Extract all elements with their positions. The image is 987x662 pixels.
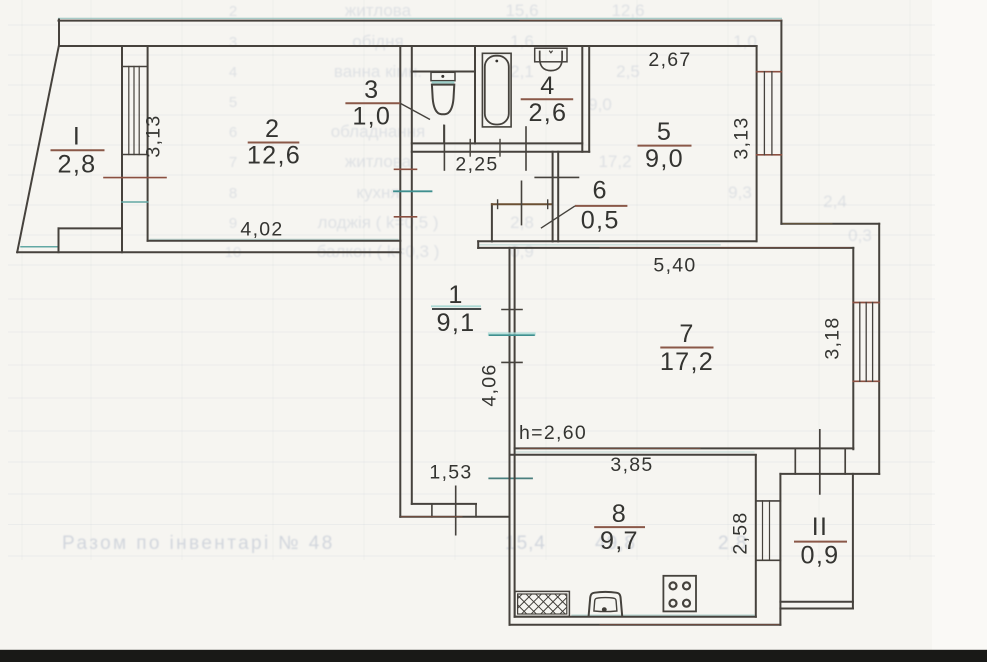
room2 door teal dim line — [394, 190, 432, 192]
balcony window cap top — [122, 66, 148, 68]
svg-text:2: 2 — [265, 115, 280, 143]
svg-text:17,2: 17,2 — [660, 348, 714, 376]
corridor left wall outer line — [399, 46, 401, 517]
room2 door red tick upper — [395, 168, 417, 170]
svg-text:кухня: кухня — [356, 183, 399, 202]
kitchen top wall lower line — [510, 454, 756, 456]
svg-text:3,13: 3,13 — [143, 114, 165, 157]
room 2 underline — [248, 142, 300, 144]
svg-text:9,3: 9,3 — [728, 183, 752, 202]
dim teal line at entrance — [489, 477, 532, 479]
svg-text:9,1: 9,1 — [437, 309, 476, 337]
svg-text:7: 7 — [679, 320, 694, 348]
room7 right wall inner — [852, 248, 854, 449]
toilet cistern — [431, 72, 455, 80]
balcony II bottom line1 — [780, 601, 853, 603]
kitchen bottom wall outer — [510, 624, 781, 626]
red-brown tint on room7 bottom line — [520, 448, 700, 450]
stove burner 1 — [670, 582, 677, 589]
svg-text:2,5: 2,5 — [616, 62, 640, 81]
svg-text:I: I — [73, 123, 81, 151]
closet 6 top edge — [492, 203, 553, 205]
bathtub outer rect — [482, 53, 511, 127]
red-brown tint on entrance outer line — [401, 516, 462, 518]
corridor right wall line1 — [509, 248, 511, 625]
svg-text:2,25: 2,25 — [455, 154, 498, 176]
closet 6 left edge — [491, 204, 493, 241]
balcony I / room2 bottom outer line — [17, 251, 400, 253]
room II underline — [794, 541, 847, 543]
svg-text:h=2,60: h=2,60 — [519, 422, 587, 444]
svg-text:0,9: 0,9 — [801, 542, 840, 570]
svg-text:4: 4 — [229, 64, 237, 81]
outer top wall top edge — [59, 20, 782, 22]
washbasin outer rect — [535, 48, 567, 62]
kitchen right wall outer — [779, 474, 781, 625]
svg-text:9,0: 9,0 — [588, 95, 612, 114]
svg-text:7: 7 — [229, 154, 237, 171]
faint table grid rows top — [8, 25, 935, 265]
stove burner 2 — [683, 582, 690, 589]
room 8 underline — [594, 526, 645, 528]
room7 bottom wall line — [515, 447, 854, 449]
svg-text:9: 9 — [229, 215, 237, 232]
kitchen sink outer — [589, 592, 623, 616]
balcony II right edge — [852, 474, 854, 609]
dim tick 2,25 right — [525, 127, 527, 170]
room I underline — [51, 149, 105, 151]
junction tick 2 on bath wall — [499, 140, 501, 157]
room 6 underline — [575, 205, 627, 207]
room 5 underline — [638, 145, 692, 147]
entrance step inner line — [412, 503, 476, 505]
outer right wall upper — [780, 21, 782, 224]
red-brown tint on hall band lower line — [600, 247, 850, 249]
balcony window glazing — [129, 67, 139, 155]
dim tick 2,25 left — [443, 126, 445, 171]
room 1 underline — [432, 308, 481, 310]
room 6 leader line — [541, 206, 575, 228]
teal dim line halo corridor-room7 — [490, 332, 535, 335]
room5 window cap bottom — [757, 154, 782, 156]
outer top wall left cap — [58, 20, 60, 47]
closet 6 plus tick right — [547, 200, 549, 209]
entrance step outer line — [400, 516, 509, 518]
bathroom right wall line 2 — [588, 46, 590, 152]
svg-text:2,67: 2,67 — [648, 49, 691, 71]
svg-text:4,02: 4,02 — [240, 219, 283, 241]
corridor left wall inner line — [411, 46, 413, 504]
svg-text:3: 3 — [229, 34, 237, 51]
room 3 leader line — [400, 103, 430, 119]
toilet room right wall — [474, 46, 476, 144]
kitchen counter inner hatched — [518, 594, 567, 614]
red-brown tint on top wall line — [520, 19, 781, 21]
svg-text:3: 3 — [364, 76, 379, 104]
toilet cistern dot — [441, 75, 444, 78]
balcony I step horizontal — [59, 227, 122, 229]
bathroom right wall line 1 — [581, 46, 583, 152]
outer top wall teal edge — [59, 17, 782, 19]
bathroom bottom wall upper line — [412, 142, 583, 144]
balcony II door jamb left — [794, 449, 796, 474]
red-brown tint on kitchen bottom outer line — [600, 624, 779, 626]
kitchen sink inner — [594, 598, 617, 612]
balcony I step vertical — [58, 228, 60, 252]
faint table grid rows bottom — [8, 431, 935, 556]
balcony II top line — [780, 473, 879, 475]
svg-text:15,4: 15,4 — [505, 533, 546, 554]
dim tick 1,53 vertical — [455, 486, 457, 534]
svg-text:1,53: 1,53 — [429, 462, 472, 484]
balcony wall teal sill mark — [122, 201, 148, 203]
closet 6 plus tick left — [497, 200, 499, 209]
stove burner 3 — [670, 600, 677, 607]
kitchen window cap top — [756, 500, 781, 502]
svg-text:2,6: 2,6 — [528, 99, 567, 127]
svg-text:8: 8 — [229, 185, 237, 202]
svg-text:II: II — [812, 513, 829, 541]
kitchen top wall teal tint — [516, 451, 754, 453]
outer wall step horizontal — [781, 223, 879, 225]
room 2 bottom wall teal tint — [150, 238, 398, 240]
svg-text:1,0: 1,0 — [733, 32, 757, 51]
kitchen floor teal line — [572, 614, 754, 616]
closet 6 right wall line2 — [557, 152, 559, 242]
balcony II bottom line2 — [780, 608, 853, 610]
teal dim line corridor-room7 — [490, 334, 535, 336]
entrance jamb tick 2 — [475, 504, 477, 517]
room7 window cap bottom — [853, 380, 879, 382]
bathtub dot — [495, 60, 498, 63]
balcony I / room 2 wall left line — [121, 46, 123, 252]
svg-text:17,2: 17,2 — [598, 152, 631, 171]
room5 window cap top — [757, 71, 782, 73]
svg-text:6: 6 — [229, 124, 237, 141]
washbasin notch — [549, 51, 552, 53]
kitchen sink bottom notch — [602, 607, 607, 612]
svg-text:3,85: 3,85 — [610, 454, 653, 476]
bathroom bottom wall lower line — [412, 151, 589, 153]
svg-text:2,58: 2,58 — [730, 511, 752, 554]
kitchen right wall inner — [755, 455, 757, 617]
svg-text:житлова: житлова — [345, 1, 412, 20]
room 7 underline — [660, 347, 713, 349]
closet 6 right wall line1 — [552, 152, 554, 242]
svg-text:6: 6 — [593, 177, 608, 205]
kitchen window glazing — [763, 501, 770, 560]
room7 window cap top — [853, 302, 879, 304]
room5 window glazing — [764, 72, 772, 155]
balcony I floor teal line — [21, 246, 59, 248]
toilet shelf line — [412, 71, 475, 73]
faint table columns top — [22, 0, 910, 560]
svg-text:0,3: 0,3 — [848, 226, 872, 245]
svg-text:Разом по інвентарі № 48: Разом по інвентарі № 48 — [62, 533, 335, 554]
room 3 underline — [345, 102, 400, 104]
svg-text:5: 5 — [657, 118, 672, 146]
corridor right wall line2 — [514, 248, 516, 617]
svg-text:4,06: 4,06 — [479, 363, 501, 406]
svg-text:0,5: 0,5 — [581, 206, 620, 234]
svg-text:1,6: 1,6 — [510, 32, 534, 51]
hall band teal fill — [480, 244, 720, 246]
tick crossing closet right wall — [535, 176, 578, 178]
junction tick on bath wall — [469, 140, 471, 157]
hall band lower line — [478, 247, 853, 249]
svg-text:9,0: 9,0 — [645, 145, 684, 173]
outer right wall lower — [878, 224, 880, 474]
brown tint on outer step line — [783, 223, 832, 225]
door ticks corridor-room7 — [502, 310, 522, 363]
svg-text:1: 1 — [448, 281, 463, 309]
balcony door red tick — [104, 177, 166, 179]
room2 door red tick lower — [395, 216, 417, 218]
black scan bar at bottom — [0, 650, 987, 662]
svg-text:15,6: 15,6 — [505, 1, 538, 20]
svg-text:5: 5 — [229, 94, 237, 111]
svg-text:12,6: 12,6 — [247, 141, 301, 169]
hall band left cap — [477, 241, 479, 248]
svg-text:1,0: 1,0 — [352, 103, 391, 131]
svg-text:лоджія ( k=0,5 ): лоджія ( k=0,5 ) — [317, 213, 438, 232]
toilet bowl — [432, 85, 454, 115]
kitchen counter outer — [515, 591, 570, 616]
svg-text:3,18: 3,18 — [822, 316, 844, 359]
svg-text:5,40: 5,40 — [653, 255, 696, 277]
balcony window cap bottom — [122, 154, 148, 156]
stove rect — [663, 576, 696, 612]
toilet seal teal band — [432, 81, 455, 83]
hall band upper line — [478, 240, 756, 242]
svg-text:житлова: житлова — [345, 152, 412, 171]
bleed totals row — [62, 533, 747, 554]
svg-text:2,1: 2,1 — [510, 62, 534, 81]
faint bleed text rows — [225, 1, 872, 261]
outer top wall bottom edge — [59, 45, 757, 47]
svg-text:обідня: обідня — [352, 32, 403, 51]
kitchen bottom wall inner — [515, 616, 756, 618]
svg-text:3,13: 3,13 — [731, 116, 753, 159]
svg-text:2: 2 — [229, 3, 237, 20]
faint table grid rows middle — [8, 299, 935, 398]
room5 right wall inner line — [756, 46, 758, 241]
room7 window glazing — [860, 303, 873, 382]
bleed-through table layer placeholder — [8, 0, 935, 560]
svg-text:12,6: 12,6 — [611, 1, 644, 20]
room 4 underline — [521, 98, 574, 100]
balcony II door jamb right — [844, 449, 846, 474]
toilet leader tick below — [443, 125, 445, 144]
svg-text:2,4: 2,4 — [823, 192, 847, 211]
balcony I slanted outer wall — [17, 46, 59, 252]
svg-text:4: 4 — [540, 72, 555, 100]
kitchen window cap bottom — [756, 559, 781, 561]
svg-text:9,7: 9,7 — [600, 527, 639, 555]
washbasin bowl — [540, 51, 562, 71]
svg-text:2,8: 2,8 — [58, 151, 97, 179]
entrance jamb tick 1 — [431, 504, 433, 517]
room 1 underline teal halo — [431, 305, 481, 307]
vertical tick in closet — [521, 181, 523, 224]
room 2 bottom wall inner line — [148, 240, 401, 242]
stove burner 4 — [683, 600, 690, 607]
balcony II dim tick — [819, 430, 821, 494]
bathtub inner stadium — [485, 56, 509, 125]
svg-text:8: 8 — [612, 500, 627, 528]
balcony I / room 2 wall right line — [147, 46, 149, 241]
